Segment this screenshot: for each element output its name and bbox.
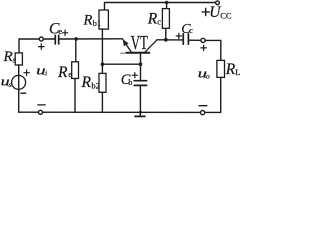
- svg-text:CC: CC: [220, 10, 232, 20]
- capacitor Cc plates: [182, 34, 184, 44]
- wire collector row: [157, 39, 182, 41]
- resistor Rb1: [99, 10, 108, 29]
- plus sign uo top: [201, 45, 207, 51]
- capacitor Ce plates: [54, 35, 56, 44]
- svg-text:R: R: [83, 13, 93, 29]
- wire Cb bottom lead: [139, 85, 141, 112]
- svg-text:R: R: [147, 11, 158, 28]
- capacitor Cb plates: [134, 80, 146, 82]
- wire Cb top lead: [140, 64, 142, 80]
- plus sign Cc: [176, 33, 181, 38]
- wire Rb2 bottom lead: [101, 92, 103, 112]
- plus sign Cb: [132, 73, 137, 78]
- node junction dot Rc top: [165, 1, 168, 4]
- wire top rail from Rb1 to +Ucc terminal: [105, 3, 216, 10]
- svg-text:e: e: [58, 26, 62, 36]
- wire Rs bottom lead through source: [18, 65, 20, 112]
- wire Rc bottom lead: [165, 28, 167, 40]
- transistor VT bar smudge: [121, 52, 125, 54]
- svg-text:R: R: [57, 64, 68, 81]
- resistor Rb2: [99, 73, 106, 92]
- wire Cc to output terminal: [189, 39, 201, 41]
- svg-text:o: o: [206, 72, 210, 81]
- node junction dot Cb bottom rail: [139, 111, 142, 114]
- plus sign Ce: [62, 30, 67, 35]
- wire base row: [102, 63, 140, 65]
- svg-text:c: c: [157, 17, 161, 27]
- transistor VT emitter arrow: [123, 39, 129, 46]
- ground bar: [135, 115, 145, 117]
- node output terminal top (open circle): [201, 38, 205, 42]
- svg-text:R: R: [81, 74, 92, 91]
- wire output terminal to RL: [205, 40, 221, 60]
- svg-text:b1: b1: [93, 18, 102, 28]
- svg-text:c: c: [189, 26, 193, 35]
- node input terminal bottom (open circle): [39, 110, 43, 114]
- wire Re top lead: [75, 39, 77, 62]
- plus sign ui top: [39, 44, 45, 50]
- wire emitter row Ce to transistor: [60, 38, 123, 40]
- svg-text:R: R: [3, 49, 13, 65]
- transistor VT emitter diagonal: [122, 39, 131, 53]
- resistor Rc: [162, 9, 169, 29]
- transistor VT base bar: [126, 52, 149, 54]
- ground stub: [139, 112, 141, 116]
- node junction dot collector: [164, 38, 168, 42]
- svg-text:i: i: [45, 68, 47, 77]
- plus sign Ucc: [202, 8, 209, 15]
- wire bottom rail: [19, 111, 221, 113]
- plus sign us: [24, 70, 29, 75]
- minus sign uo bottom: [199, 105, 207, 107]
- wire Rb2 top lead: [101, 64, 103, 73]
- svg-text:b: b: [128, 78, 132, 87]
- resistor Re: [72, 62, 79, 79]
- wire RL bottom lead: [220, 77, 222, 112]
- svg-text:s: s: [9, 80, 12, 89]
- node output terminal bottom (open circle): [201, 111, 205, 115]
- node +Ucc terminal circle: [216, 1, 220, 5]
- svg-text:VT: VT: [131, 33, 148, 54]
- transistor VT collector diagonal: [145, 40, 157, 52]
- minus sign us: [21, 92, 26, 94]
- svg-text:b2: b2: [91, 80, 100, 90]
- source us circle: [12, 75, 26, 89]
- node junction dot base row left: [101, 62, 105, 66]
- svg-text:e: e: [68, 69, 72, 79]
- wire Rc top lead: [166, 3, 168, 9]
- node junction dot Re top: [74, 37, 78, 41]
- minus sign ui bottom: [38, 104, 45, 106]
- resistor Rs: [15, 53, 22, 65]
- wire Rs top lead to input terminal: [19, 39, 39, 53]
- wire Re bottom lead: [74, 79, 76, 113]
- wire Rb1 bottom lead crossing emitter row: [101, 29, 103, 64]
- svg-text:L: L: [235, 67, 240, 77]
- wire input terminal to Ce: [43, 38, 54, 40]
- node junction dot base row right: [139, 62, 143, 66]
- resistor RL: [217, 60, 225, 77]
- transistor VT base lead: [140, 54, 142, 64]
- node input terminal top (open circle): [39, 37, 43, 41]
- svg-text:R: R: [225, 61, 236, 78]
